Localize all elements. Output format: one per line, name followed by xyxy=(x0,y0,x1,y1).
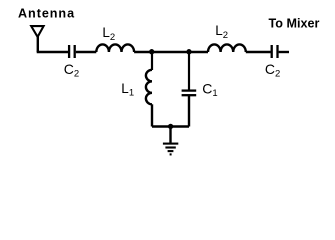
capacitor C2 (right) xyxy=(272,45,278,58)
wire C2 to L2 left xyxy=(76,51,97,53)
wire antenna to C2 left xyxy=(37,51,68,53)
svg-text:Antenna: Antenna xyxy=(18,7,75,21)
capacitor C2 (left) xyxy=(69,45,75,58)
node B (junction dot) xyxy=(186,49,191,54)
svg-text:C1: C1 xyxy=(202,80,217,99)
svg-text:To Mixer: To Mixer xyxy=(269,17,320,31)
wire L2 right to C2 right xyxy=(246,51,271,53)
svg-text:L2: L2 xyxy=(215,23,228,41)
inductor L1 xyxy=(146,70,152,105)
bottom wire xyxy=(152,125,189,127)
capacitor C1 xyxy=(182,91,197,96)
bottom junction node xyxy=(168,124,173,129)
wire node B down to C1 xyxy=(188,52,190,90)
wire L1 to bottom wire xyxy=(151,104,153,126)
svg-text:C2: C2 xyxy=(64,61,79,80)
antenna symbol xyxy=(31,26,43,52)
svg-text:L1: L1 xyxy=(121,81,134,99)
wire node A down to L1 xyxy=(151,52,153,70)
ground xyxy=(163,144,178,155)
wire node B to L2 right xyxy=(189,51,208,53)
wire C1 to bottom wire xyxy=(188,96,190,127)
svg-text:L2: L2 xyxy=(102,25,115,43)
svg-text:C2: C2 xyxy=(265,61,280,80)
wire node A to node B xyxy=(152,51,189,53)
node A (junction dot) xyxy=(149,49,154,54)
wire C2 right output stub xyxy=(279,51,289,53)
inductor L2 (left) xyxy=(96,44,134,52)
wire L2 to node A xyxy=(134,51,152,53)
wire bottom node to ground xyxy=(169,127,171,143)
inductor L2 (right) xyxy=(208,44,246,52)
